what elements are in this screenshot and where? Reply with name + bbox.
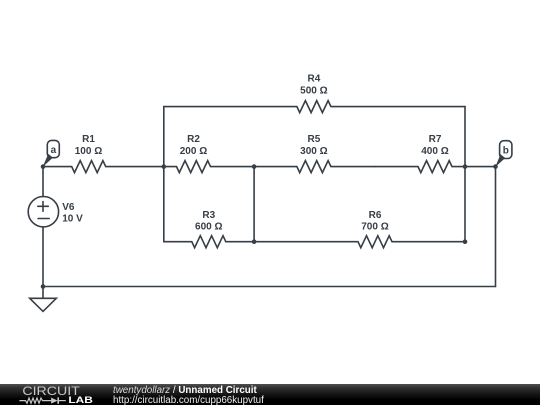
svg-text:400 Ω: 400 Ω [421, 146, 448, 157]
terminal b box [500, 141, 512, 159]
svg-text:b: b [503, 145, 509, 156]
logo diode symbol [51, 398, 58, 404]
footer title line [113, 385, 257, 396]
resistor R3 [164, 236, 254, 248]
svg-text:100 Ω: 100 Ω [75, 146, 102, 157]
svg-text:10 V: 10 V [62, 213, 83, 224]
svg-text:R5: R5 [308, 134, 321, 145]
svg-text:LAB: LAB [68, 395, 93, 405]
node R3-R6 junction [252, 239, 257, 244]
svg-text:200 Ω: 200 Ω [180, 146, 207, 157]
footer url line [113, 395, 264, 406]
wire right outer rail vertical [495, 167, 497, 287]
ground [30, 287, 57, 312]
resistor R6 [254, 236, 465, 248]
resistor R4 [164, 101, 465, 113]
wire node to terminal b [465, 166, 496, 168]
wire V6 top lead [42, 167, 44, 197]
node at b [493, 164, 498, 169]
svg-text:R1: R1 [82, 134, 95, 145]
svg-text:V6: V6 [62, 202, 75, 213]
resistor R2 [164, 161, 254, 173]
logo resistor zigzag [19, 398, 51, 403]
resistor R7 [375, 161, 466, 173]
node ground junction [41, 284, 46, 289]
svg-text:R2: R2 [187, 134, 200, 145]
footer bar [0, 384, 540, 405]
wire left rail vertical [163, 107, 165, 242]
wire middle rail vertical [253, 167, 255, 242]
terminal a tail [43, 154, 53, 167]
terminal a box [47, 140, 59, 157]
svg-text:700 Ω: 700 Ω [361, 222, 388, 233]
wire V6 bottom lead [42, 227, 44, 287]
voltage source V6 [28, 197, 58, 227]
svg-text:R3: R3 [202, 210, 215, 221]
svg-text:a: a [51, 145, 57, 156]
node R1-R2 junction [162, 164, 167, 169]
svg-text:500 Ω: 500 Ω [300, 86, 327, 97]
resistor R5 [254, 161, 374, 173]
svg-text:R4: R4 [308, 74, 321, 85]
terminal b tail [495, 154, 505, 167]
node at a [41, 164, 46, 169]
node R6 right junction [463, 239, 468, 244]
wire bottom return [43, 286, 496, 288]
svg-text:600 Ω: 600 Ω [195, 222, 222, 233]
resistor R1 [43, 161, 164, 173]
wire right inner rail vertical [464, 107, 466, 242]
node R2-R5 junction [252, 164, 257, 169]
svg-text:300 Ω: 300 Ω [300, 146, 327, 157]
svg-text:R6: R6 [369, 210, 382, 221]
svg-text:R7: R7 [429, 134, 442, 145]
node R7 right junction [463, 164, 468, 169]
